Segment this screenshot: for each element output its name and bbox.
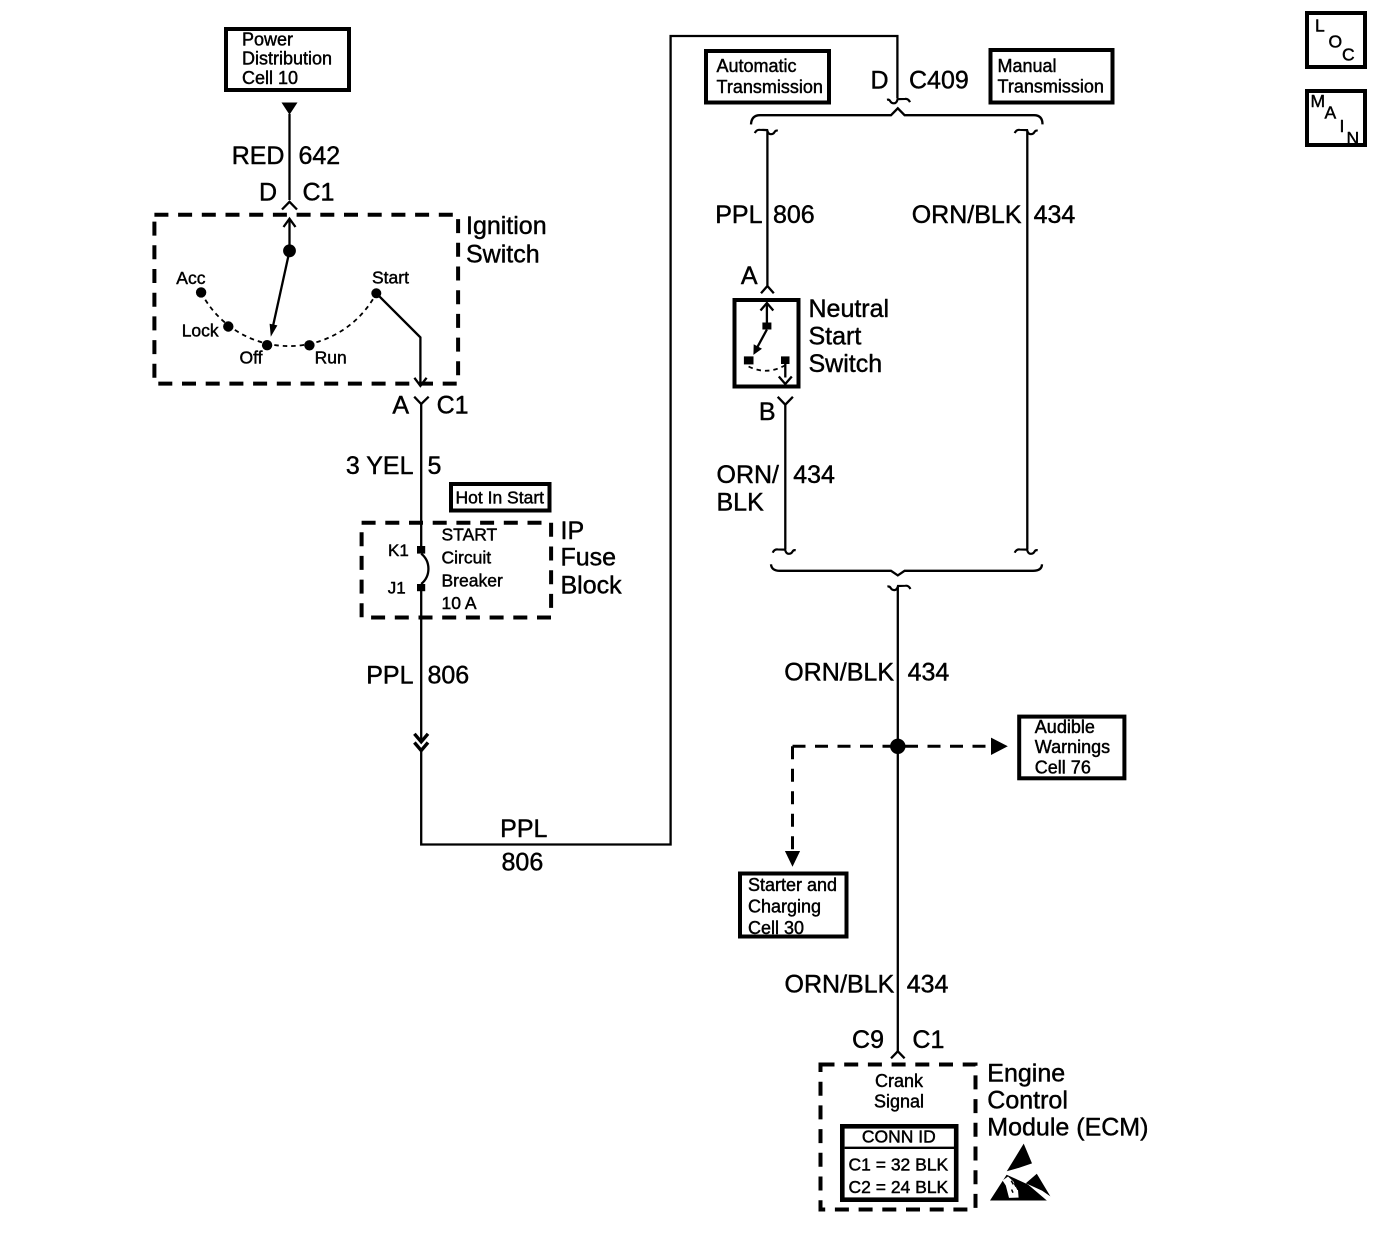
svg-text:Switch: Switch <box>809 350 883 378</box>
svg-text:D: D <box>870 67 888 95</box>
svg-text:M: M <box>1311 91 1326 111</box>
svg-text:Neutral: Neutral <box>809 295 890 323</box>
svg-text:Starter and: Starter and <box>748 875 837 895</box>
svg-text:Run: Run <box>315 347 347 367</box>
svg-text:5: 5 <box>428 452 442 480</box>
svg-text:C1 = 32 BLK: C1 = 32 BLK <box>849 1154 949 1174</box>
svg-text:Off: Off <box>240 348 263 368</box>
svg-text:Transmission: Transmission <box>717 77 823 97</box>
svg-text:Ignition: Ignition <box>466 212 547 240</box>
svg-text:C1: C1 <box>912 1026 944 1054</box>
svg-text:Hot In Start: Hot In Start <box>456 488 545 508</box>
svg-text:Start: Start <box>372 268 409 288</box>
svg-text:I: I <box>1340 116 1345 136</box>
svg-text:IP: IP <box>561 517 585 545</box>
svg-text:Acc: Acc <box>176 268 205 288</box>
svg-text:PPL: PPL <box>500 815 547 843</box>
svg-text:L: L <box>1315 16 1325 36</box>
svg-text:A: A <box>392 392 409 420</box>
svg-text:434: 434 <box>907 970 949 998</box>
svg-text:PPL: PPL <box>366 662 413 690</box>
svg-text:Fuse: Fuse <box>561 544 617 572</box>
svg-text:806: 806 <box>428 662 470 690</box>
svg-text:Signal: Signal <box>874 1091 924 1111</box>
svg-text:Cell 76: Cell 76 <box>1035 758 1091 778</box>
svg-text:Block: Block <box>561 572 623 600</box>
svg-text:PPL: PPL <box>715 201 762 229</box>
svg-text:Distribution: Distribution <box>242 49 332 69</box>
svg-text:Transmission: Transmission <box>998 76 1104 96</box>
svg-text:Breaker: Breaker <box>442 570 503 590</box>
svg-text:START: START <box>442 525 498 545</box>
svg-text:C1: C1 <box>303 179 335 207</box>
svg-text:Crank: Crank <box>875 1071 924 1091</box>
svg-text:Lock: Lock <box>182 320 219 340</box>
svg-text:Automatic: Automatic <box>717 56 797 76</box>
svg-text:806: 806 <box>502 849 544 877</box>
svg-text:Engine: Engine <box>987 1059 1065 1087</box>
svg-text:434: 434 <box>793 461 835 489</box>
svg-text:ORN/BLK: ORN/BLK <box>912 201 1022 229</box>
svg-text:K1: K1 <box>388 541 409 560</box>
svg-text:Audible: Audible <box>1035 717 1095 737</box>
svg-text:CONN ID: CONN ID <box>862 1127 936 1147</box>
svg-text:Module (ECM): Module (ECM) <box>987 1113 1148 1141</box>
svg-text:Start: Start <box>809 322 862 350</box>
svg-text:Circuit: Circuit <box>442 548 492 568</box>
svg-text:J1: J1 <box>388 579 406 598</box>
svg-text:D: D <box>259 179 277 207</box>
svg-text:Control: Control <box>987 1086 1068 1114</box>
svg-text:Warnings: Warnings <box>1035 737 1110 757</box>
svg-text:A: A <box>1325 103 1337 123</box>
svg-text:Manual: Manual <box>998 56 1057 76</box>
svg-text:Power: Power <box>242 30 293 50</box>
svg-text:Cell 30: Cell 30 <box>748 918 804 938</box>
svg-text:BLK: BLK <box>717 488 765 516</box>
svg-text:C2 = 24 BLK: C2 = 24 BLK <box>849 1177 949 1197</box>
svg-text:ORN/: ORN/ <box>717 461 780 489</box>
svg-text:10 A: 10 A <box>442 593 477 613</box>
svg-text:B: B <box>759 398 776 426</box>
svg-text:3 YEL: 3 YEL <box>346 452 414 480</box>
svg-text:ORN/BLK: ORN/BLK <box>784 659 894 687</box>
svg-text:806: 806 <box>773 201 815 229</box>
svg-text:C1: C1 <box>437 392 469 420</box>
svg-text:C409: C409 <box>909 67 969 95</box>
svg-text:Switch: Switch <box>466 240 540 268</box>
svg-text:Cell 10: Cell 10 <box>242 68 298 88</box>
svg-text:A: A <box>741 262 758 290</box>
svg-text:C: C <box>1342 45 1355 65</box>
svg-text:ORN/BLK: ORN/BLK <box>785 970 895 998</box>
svg-text:434: 434 <box>1034 201 1076 229</box>
svg-text:RED: RED <box>232 142 285 170</box>
svg-text:642: 642 <box>299 142 341 170</box>
svg-text:O: O <box>1329 32 1343 52</box>
svg-text:C9: C9 <box>852 1026 884 1054</box>
svg-text:434: 434 <box>908 659 950 687</box>
svg-text:Charging: Charging <box>748 896 821 916</box>
svg-text:N: N <box>1347 128 1360 148</box>
